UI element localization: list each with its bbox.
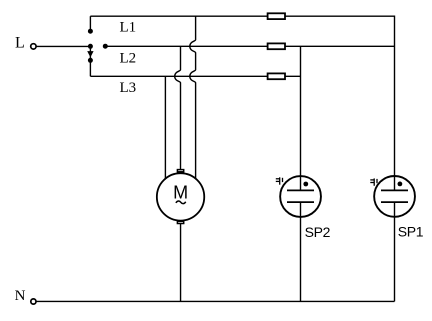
- svg-text:SP1: SP1: [398, 224, 424, 240]
- svg-text:L3: L3: [120, 80, 137, 96]
- svg-text:M: M: [173, 183, 188, 203]
- svg-text:L2: L2: [120, 50, 137, 66]
- svg-text:L1: L1: [120, 19, 137, 35]
- svg-text:SP2: SP2: [305, 224, 331, 240]
- svg-text:N: N: [15, 288, 26, 304]
- svg-text:L: L: [15, 34, 25, 51]
